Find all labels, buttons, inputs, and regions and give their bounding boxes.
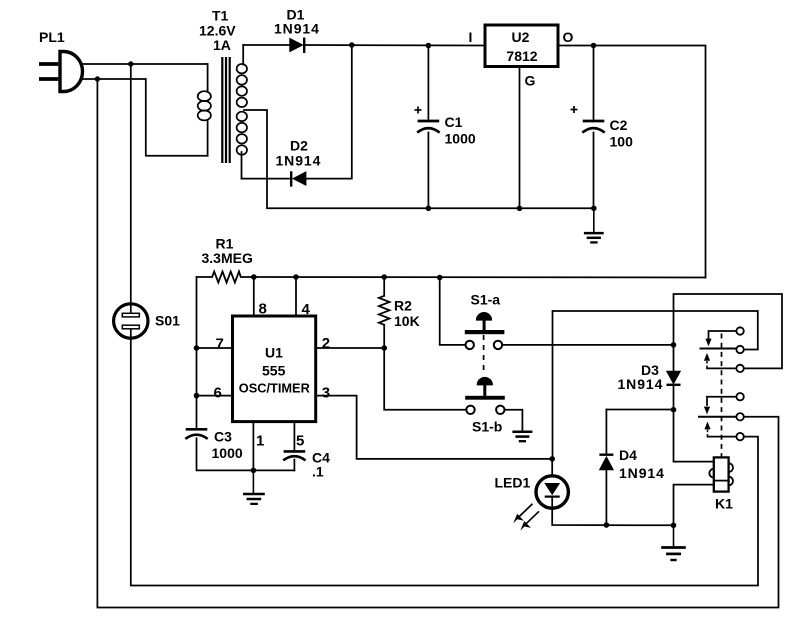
svg-text:1000: 1000 <box>212 445 243 461</box>
svg-text:1: 1 <box>256 433 264 450</box>
diode D3 <box>667 371 681 385</box>
svg-text:S1-b: S1-b <box>472 419 502 435</box>
wire S1-b right contact to ground <box>504 410 522 431</box>
svg-text:T1: T1 <box>212 8 229 24</box>
diode D1 <box>290 38 304 54</box>
svg-text:O: O <box>563 29 574 45</box>
relay contact circle2 <box>736 346 743 353</box>
svg-text:K1: K1 <box>715 496 733 512</box>
label T1 12.6V 1A <box>199 8 236 54</box>
wire plug top prong to transformer primary top <box>81 63 208 65</box>
junction node ground rail / K1 <box>671 523 677 529</box>
svg-text:3.3MEG: 3.3MEG <box>202 250 253 266</box>
plug PL1 <box>39 52 83 92</box>
relay contact circle4 <box>736 393 743 400</box>
label D2 1N914 <box>276 138 322 169</box>
arrow up toward bar1 <box>704 353 710 368</box>
junction node D4 bottom <box>604 522 610 528</box>
junction node pin 7 <box>194 345 200 351</box>
svg-text:4: 4 <box>302 301 311 318</box>
svg-text:U2: U2 <box>512 29 530 45</box>
wire D4 vertical <box>605 410 607 526</box>
wire C2 vertical <box>593 46 595 209</box>
wire plug bottom prong to corner and primary bottom <box>81 79 208 156</box>
relay contact circle3 <box>736 365 743 372</box>
wire relay contact circle4 bracket <box>707 397 737 405</box>
svg-text:U1: U1 <box>265 345 283 361</box>
label R2 10K <box>394 298 420 330</box>
wire relay contact bar1 wiper <box>701 348 737 350</box>
svg-text:1N914: 1N914 <box>276 153 322 169</box>
capacitor C2 <box>571 106 605 133</box>
svg-text:8: 8 <box>259 301 267 318</box>
capacitor C3 <box>185 429 207 439</box>
wire D4 branch horizontal <box>606 409 673 411</box>
wire pin 3 down to LED node <box>316 396 553 459</box>
svg-text:R2: R2 <box>394 298 412 314</box>
junction node plug bottom / left rail <box>95 76 100 81</box>
wire relay contact circle6 bracket <box>708 436 737 438</box>
timer U1 box <box>233 316 316 422</box>
junction node pin 4 rail <box>293 274 299 280</box>
regulator U2 box <box>485 25 558 67</box>
relay contact circle6 <box>736 433 743 440</box>
resistor R2 <box>379 296 390 325</box>
capacitor C1 <box>415 107 440 133</box>
wire D2 row and riser to top rail node <box>242 45 352 179</box>
wire transformer secondary top lead <box>242 45 244 65</box>
wire SO1 bottom to lower rail1 across page up to relay contact circle6 <box>131 338 758 585</box>
svg-text:.1: .1 <box>312 464 324 480</box>
label pin 8 <box>259 301 267 318</box>
svg-text:C3: C3 <box>214 429 232 445</box>
label pin 3 <box>322 385 330 402</box>
wire pin 4 <box>295 277 297 316</box>
wire relay contact circle3 bracket <box>707 367 737 369</box>
svg-text:D2: D2 <box>290 138 308 154</box>
svg-text:5: 5 <box>296 433 304 450</box>
LED1 <box>536 476 568 509</box>
wire pin 5 to C4 <box>293 422 295 471</box>
svg-text:100: 100 <box>610 134 634 150</box>
dashed mechanical link relay armature <box>721 334 723 458</box>
svg-text:7812: 7812 <box>506 48 537 64</box>
wire C1 vertical <box>427 46 429 209</box>
wire pin 6 <box>197 395 233 397</box>
ground below U1 pin 1 <box>243 470 265 504</box>
label K1 <box>715 496 733 512</box>
svg-text:S01: S01 <box>155 313 180 329</box>
junction node S1-a / D3 <box>671 342 677 348</box>
transformer T1 secondary winding <box>237 64 247 155</box>
svg-text:PL1: PL1 <box>39 29 65 45</box>
svg-text:1N914: 1N914 <box>618 376 664 392</box>
junction node D3 / D4 / K1 <box>671 407 677 413</box>
wire transformer primary leads <box>207 64 209 156</box>
junction node pin 2 / R2 <box>381 345 387 351</box>
junction node C1 top <box>426 43 432 49</box>
label pin 7 <box>216 336 224 353</box>
capacitor C4 <box>283 451 305 460</box>
transformer T1 core <box>222 57 229 163</box>
relay coil K1 <box>709 457 733 491</box>
wire transformer secondary bottom lead <box>241 152 243 179</box>
label PL1 <box>39 29 65 45</box>
wire line B pin3 node riser to relay contact circle2 <box>553 311 758 459</box>
svg-text:I: I <box>469 29 473 45</box>
diode D4 <box>599 455 613 470</box>
wire K1 bottom terminal to ground rail <box>674 485 714 526</box>
wire SO1 branch down from top prong line <box>130 64 132 304</box>
junction node C2 top <box>591 43 597 49</box>
svg-text:3: 3 <box>322 385 330 402</box>
label C1 1000 <box>445 114 476 147</box>
wire pin 7 <box>197 347 233 349</box>
label S1-b <box>472 419 502 435</box>
socket SO1 <box>114 304 148 338</box>
relay contact circle5 <box>736 413 743 420</box>
label pin 6 <box>214 385 222 402</box>
wire R2/pin2 node down to S1-b left contact <box>384 348 466 410</box>
junction node plug top / SO1 <box>128 61 133 66</box>
svg-text:10K: 10K <box>394 313 420 329</box>
svg-text:OSC/TIMER: OSC/TIMER <box>239 381 310 396</box>
label pin 5 <box>296 433 304 450</box>
wire D3 node down to K1 top terminal <box>674 410 714 462</box>
wire U2 output to right corner down to +12 rail <box>558 46 706 278</box>
resistor R1 <box>212 272 241 283</box>
pushbutton S1-b <box>465 377 505 414</box>
wire LED1 anode lead <box>551 459 553 475</box>
wire pin 8 <box>253 277 255 316</box>
wire pin 1 <box>252 422 254 471</box>
junction node pin 1 / C3 / C4 <box>251 468 257 474</box>
svg-text:C1: C1 <box>445 114 463 130</box>
pushbutton S1-a <box>465 313 505 350</box>
svg-text:D4: D4 <box>619 447 637 463</box>
label D3 1N914 <box>618 362 664 392</box>
wire relay contact circle1 bracket <box>709 331 737 339</box>
diode D2 <box>291 171 306 186</box>
wire relay contact bar2 wiper <box>699 416 737 418</box>
junction node pin 8 rail <box>251 274 257 280</box>
LED1 light arrows <box>513 504 539 531</box>
svg-text:1000: 1000 <box>445 131 476 147</box>
wire pin 2 to R2 bottom <box>316 347 385 349</box>
wire LED1 cathode to ground node rail <box>552 509 673 525</box>
svg-text:S1-a: S1-a <box>471 292 501 308</box>
junction node U2 ground <box>517 206 523 212</box>
label U1 555 OSC/TIMER <box>239 345 310 396</box>
junction node pin 3 / LED1 <box>549 456 555 462</box>
junction node S1-a branch rail <box>437 275 443 281</box>
svg-text:7: 7 <box>216 336 224 353</box>
arrow down toward bar2 <box>704 407 710 415</box>
label SO1 <box>155 313 180 329</box>
svg-text:C2: C2 <box>610 117 628 133</box>
svg-text:2: 2 <box>322 335 330 352</box>
arrow up toward bar2 <box>704 422 710 437</box>
arrow down toward bar1 <box>705 339 711 347</box>
transformer T1 primary winding <box>198 91 211 120</box>
wire D3 vertical to D4 node <box>673 345 675 410</box>
wire U2 ground lead <box>519 67 521 209</box>
label D1 1N914 <box>274 7 320 37</box>
svg-text:G: G <box>525 73 536 89</box>
dashed link S1-a to S1-b <box>483 335 485 374</box>
wire S1-a right contact to D3 node <box>502 344 674 346</box>
junction node R2 top rail <box>381 274 387 280</box>
wire S1-a branch from +12 rail <box>440 278 466 345</box>
label S1-a <box>471 292 501 308</box>
wire secondary center tap to ground rail <box>244 110 594 208</box>
ground below S1-b <box>512 432 532 441</box>
wire line A D3 top to relay contact circle3 <box>674 294 783 368</box>
junction node pin 6 <box>194 393 200 399</box>
svg-text:1N914: 1N914 <box>619 465 665 481</box>
svg-text:1A: 1A <box>213 37 231 53</box>
label D4 1N914 <box>619 447 665 481</box>
junction node D1 cathode / D2 riser <box>349 42 355 48</box>
svg-text:LED1: LED1 <box>495 475 531 491</box>
wire R2 leads <box>383 277 385 348</box>
svg-text:6: 6 <box>214 385 222 402</box>
svg-text:1N914: 1N914 <box>274 21 320 37</box>
svg-text:555: 555 <box>262 363 286 379</box>
wire left AC rail2 from bottom prong junction across bottom to relay contact circle5 <box>97 79 778 608</box>
label C4 .1 <box>312 450 330 480</box>
label LED1 <box>495 475 531 491</box>
wire +12V rail y=277 <box>197 276 706 279</box>
junction node C1 bottom <box>426 206 432 212</box>
label pin 4 <box>302 301 311 318</box>
wire top rail secondary to D1 to U2 input <box>243 44 485 47</box>
ground below C2 node <box>584 208 604 242</box>
label R1 3.3MEG <box>202 236 253 267</box>
wire left vertical R1/pin7/pin6/C3 <box>197 277 295 470</box>
relay contact circle1 <box>736 327 743 334</box>
label U2 I O G 7812 <box>469 29 574 89</box>
ground below K1 rail <box>661 525 686 560</box>
label C2 100 <box>610 117 634 150</box>
junction node C2 bottom ground <box>591 206 597 212</box>
label pin 1 <box>256 433 264 450</box>
label C3 1000 <box>212 429 243 462</box>
label pin 2 <box>322 335 330 352</box>
